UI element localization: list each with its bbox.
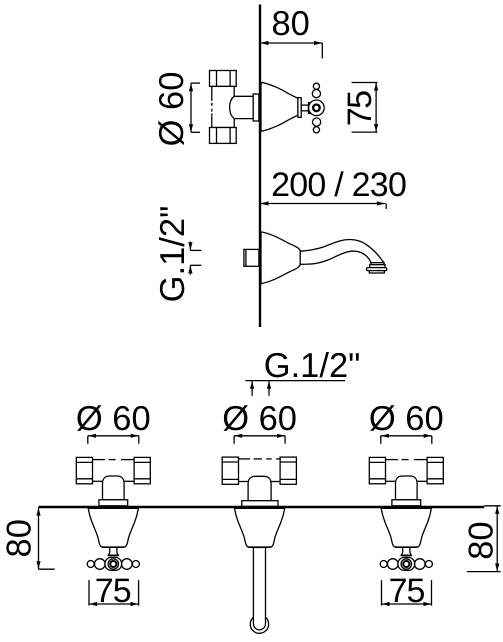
right valve: wall flange <box>392 500 421 506</box>
dimension 75 (right) <box>382 580 432 606</box>
left valve: handle inner beads <box>95 559 106 570</box>
svg-text:75: 75 <box>341 91 379 126</box>
svg-text:75: 75 <box>389 572 425 610</box>
dimension 80 (bottom left) <box>36 507 54 569</box>
right valve: hub center <box>403 561 409 567</box>
valve trim ring <box>298 98 301 118</box>
valve handle block <box>309 103 315 114</box>
svg-text:80: 80 <box>0 519 38 557</box>
svg-text:Ø 60: Ø 60 <box>369 400 444 438</box>
left valve: hub center <box>110 561 116 567</box>
valve top nut (hex, side view) <box>210 71 237 87</box>
dimension 80 (bottom right) <box>467 506 501 572</box>
handle bead bottom <box>313 118 321 126</box>
right valve: escutcheon bell <box>381 508 431 547</box>
dimension Ø60 bracket (left) <box>88 434 139 444</box>
wall line (front view) <box>39 506 485 509</box>
G.1/2 leader line <box>245 381 345 396</box>
svg-text:G.1/2": G.1/2" <box>264 347 361 385</box>
dimension 75 (left) <box>89 580 139 606</box>
handle hub <box>309 100 325 116</box>
center spout: tee body <box>239 459 281 482</box>
left valve: wall flange <box>99 500 128 506</box>
bell bottom edge emphasis <box>249 546 271 548</box>
dimension Ø60 (top left) <box>189 83 200 132</box>
wall line (side view) <box>259 5 261 328</box>
valve body (vertical tube) <box>212 86 234 127</box>
center spout: wall flange <box>242 501 278 507</box>
right valve: handle outer beads <box>380 561 387 568</box>
spout escutcheon bell (side view) <box>261 232 301 284</box>
right valve: handle stem <box>401 547 411 555</box>
spout aerator band 1 <box>371 263 384 265</box>
handle hub ring <box>313 105 320 112</box>
svg-text:G.1/2": G.1/2" <box>154 206 192 303</box>
center spout: right nut <box>280 457 296 484</box>
right valve: tee body <box>386 460 428 482</box>
G.1/2 thread marks (top) <box>188 241 201 274</box>
valve bottom nut (hex, side view) <box>210 128 237 144</box>
left valve: branch dome <box>103 476 125 500</box>
center spout: branch dome <box>248 476 271 500</box>
dimension 75 (top right) <box>352 83 379 133</box>
left valve: handle hub <box>105 557 122 570</box>
right valve: branch dome <box>396 476 418 500</box>
bell bottom edge emphasis <box>102 546 124 548</box>
valve escutcheon bell (side view) <box>261 82 298 131</box>
svg-text:75: 75 <box>95 572 131 610</box>
handle bead top small <box>313 83 319 89</box>
left valve: hub ring <box>108 559 118 569</box>
spout supply nipple <box>244 249 259 266</box>
center spout: escutcheon bell <box>235 508 285 547</box>
svg-text:200 / 230: 200 / 230 <box>271 166 406 204</box>
spout aerator flange <box>367 268 387 271</box>
left valve: escutcheon bell <box>88 508 138 547</box>
valve handle stem <box>301 105 308 111</box>
dimension Ø60 bracket (right) <box>381 434 432 444</box>
svg-text:80: 80 <box>463 521 501 559</box>
left valve: tee body <box>93 460 135 482</box>
svg-text:80: 80 <box>272 5 310 43</box>
center spout: tip outer <box>250 617 268 633</box>
center spout: left nut <box>222 457 238 484</box>
dimension 200/230 <box>260 201 386 209</box>
left valve: handle stem <box>108 547 118 555</box>
dimension Ø60 bracket (center) <box>234 434 285 444</box>
handle bead bottom small <box>313 127 319 133</box>
spout aerator band 2 <box>370 265 385 268</box>
svg-text:Ø 60: Ø 60 <box>222 400 297 438</box>
right valve: right nut <box>427 457 443 483</box>
right valve: handle inner beads <box>388 559 399 570</box>
svg-text:Ø 60: Ø 60 <box>153 72 191 147</box>
right valve: handle hub <box>398 557 415 570</box>
handle bead top <box>312 90 320 98</box>
left valve: stem base line <box>108 554 119 556</box>
left valve: right nut <box>134 457 150 483</box>
center spout: down tube <box>253 547 265 622</box>
svg-text:Ø 60: Ø 60 <box>76 400 151 438</box>
left valve: handle outer beads <box>87 561 94 568</box>
spout tube (swan neck) <box>300 239 384 264</box>
bell bottom edge emphasis <box>395 546 417 548</box>
valve outlet tube to wall <box>230 96 254 118</box>
valve wall flange <box>253 94 259 121</box>
left valve: left nut <box>76 457 92 483</box>
right valve: stem base line <box>401 554 412 556</box>
dimension 80 (top) <box>260 41 322 59</box>
right valve: hub ring <box>401 559 411 569</box>
right valve: left nut <box>369 457 385 483</box>
spout aerator band 4 <box>369 271 384 273</box>
center spout: tip inner arc <box>253 621 265 630</box>
